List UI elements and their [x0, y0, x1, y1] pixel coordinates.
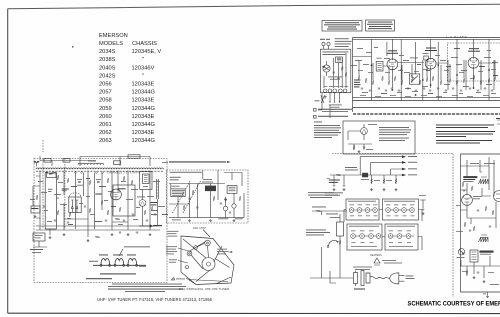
caption heater circuit viewed	[100, 273, 136, 274]
svg-text:2059: 2059	[99, 106, 112, 112]
svg-text:120344G: 120344G	[132, 138, 155, 144]
waveform sawtooth upper	[478, 177, 488, 184]
dial stop pointer	[203, 230, 210, 238]
dial plate inner skirt	[186, 277, 231, 285]
checkbox line 1	[314, 109, 353, 112]
AGC arrow	[139, 225, 152, 227]
svg-text:120343E: 120343E	[132, 98, 155, 104]
channel strip coil 1	[45, 173, 59, 230]
tuner notes text block	[108, 284, 186, 292]
label P1 S1	[354, 289, 365, 290]
sound section wires	[460, 157, 496, 228]
note box 2 (UHF tuner strip notes)	[366, 20, 395, 31]
L5 coil box	[171, 186, 185, 197]
stage coupling wires	[353, 57, 496, 67]
b+ distribution wires with arrows	[330, 155, 417, 176]
dial pulley large	[202, 258, 215, 271]
sound section resistors	[462, 182, 494, 231]
svg-text:2042S: 2042S	[99, 73, 116, 79]
sound section caps	[463, 190, 491, 231]
IF strip main box	[353, 38, 500, 113]
left lower boxes -140V	[30, 233, 47, 253]
svg-text:2038S: 2038S	[99, 57, 116, 63]
audio out tube V6 partial right edge	[494, 191, 500, 202]
page top border	[8, 4, 500, 9]
balun transformer	[336, 57, 343, 63]
tube V2 2nd IF 6CB6	[425, 48, 437, 70]
IF strip extra labels	[357, 47, 498, 94]
tuner interior wires	[36, 171, 160, 238]
tuner top feed wires	[40, 155, 150, 166]
svg-text:2058: 2058	[99, 98, 112, 104]
UHF tuner grounds	[188, 219, 235, 222]
svg-text:120343E: 120343E	[132, 130, 155, 136]
page left border	[7, 9, 9, 313]
heavy dashed separator	[353, 113, 500, 115]
svg-text:2060: 2060	[99, 114, 112, 120]
svg-text:L.2 PLATE: L.2 PLATE	[446, 35, 468, 39]
extra value labels	[355, 57, 498, 89]
UHF osc transformer	[227, 186, 237, 194]
leads below terminal strip	[324, 93, 342, 108]
svg-text:HEATERS: HEATERS	[370, 254, 382, 257]
dial pulley left2	[194, 246, 198, 250]
tube V1 RF amp 6BK7B (dashed envelope)	[62, 189, 82, 213]
UHF tuner bottom labels	[172, 218, 243, 220]
mixer coil assembly L6	[140, 172, 152, 190]
AC interlock connector	[354, 271, 371, 287]
svg-text:": "	[142, 57, 144, 63]
UHF tuner caps	[188, 198, 231, 213]
svg-text:120345E, V: 120345E, V	[132, 49, 162, 55]
svg-text:DIAL STOP: DIAL STOP	[193, 227, 206, 230]
section boundary dashed horizontal	[332, 153, 453, 155]
dial cord runs	[183, 239, 230, 282]
svg-text:2040S: 2040S	[99, 65, 116, 71]
sound lower wires	[460, 256, 500, 278]
svg-text:120343E: 120343E	[132, 114, 155, 120]
antenna Y symbol	[34, 161, 39, 166]
dial mechanism plate outline	[181, 236, 234, 285]
svg-text:120344G: 120344G	[132, 90, 155, 96]
label AC interlock	[353, 267, 372, 270]
coupler vertical wires	[324, 53, 346, 88]
heater interconnect wires	[344, 210, 422, 251]
svg-text:2034S: 2034S	[99, 49, 116, 55]
tube V osc 6J6	[111, 188, 126, 200]
on-off switch note rows	[325, 192, 343, 195]
line cord	[370, 276, 390, 278]
lead dress note dark cluster	[354, 80, 361, 88]
sound IF tube V5	[462, 195, 482, 206]
label C/W tuner arrow	[171, 278, 185, 280]
heater chain box 3	[347, 224, 382, 250]
UHF tuner wires	[169, 170, 244, 218]
heater circuit filament arches	[89, 255, 146, 267]
dashed AGC box top right	[447, 43, 500, 81]
pilot lamp symbol	[374, 258, 402, 265]
svg-text:2061: 2061	[99, 122, 112, 128]
dial idler small	[186, 266, 189, 269]
channel strip coil 2	[75, 173, 83, 230]
IF transformer L3 can	[376, 58, 383, 71]
section boundary dashed vertical	[452, 154, 454, 298]
sound takeoff label block	[463, 176, 477, 182]
right edge connector stubs	[496, 118, 500, 124]
plate load resistors row	[358, 75, 496, 85]
svg-text:SCHEMATIC COURTESY OF EMERSON: SCHEMATIC COURTESY OF EMERSON	[408, 301, 500, 308]
note conversion part nos	[86, 278, 112, 279]
fuse / circuit breaker left	[330, 214, 344, 248]
UHF box inner header text	[170, 171, 202, 174]
wires top rail to tubes	[372, 39, 495, 100]
NOTE paragraph	[314, 122, 341, 138]
coupler small parts	[328, 66, 347, 80]
IF strip bottom rails	[353, 97, 500, 99]
waveform sawtooth lower	[478, 235, 488, 242]
svg-text:DIAL STRINGING, UHF-VHF TUNER: DIAL STRINGING, UHF-VHF TUNER	[179, 288, 229, 291]
sound section bottom ground	[483, 292, 489, 298]
page bottom border	[8, 312, 500, 314]
UHF trim bal labels	[170, 177, 181, 180]
right column dark labels	[151, 202, 159, 215]
dial labels right column	[217, 249, 232, 255]
oscillator section box	[113, 185, 135, 216]
video detector diode cluster	[409, 74, 419, 84]
cathode drop wires	[359, 60, 495, 88]
svg-text:2057: 2057	[99, 90, 112, 96]
antenna coupler box	[321, 49, 351, 92]
svg-text:EMERSON: EMERSON	[99, 33, 128, 39]
channel strip coil 3	[95, 173, 104, 230]
checkbox line 2	[314, 116, 349, 119]
UHF mixer diode	[223, 197, 227, 218]
tuner value labels	[38, 178, 168, 225]
bypass capacitors row	[361, 88, 493, 91]
svg-text:2063: 2063	[99, 138, 112, 144]
label UHF TUNERS lines	[335, 38, 352, 47]
heater chain box 1	[346, 199, 379, 220]
osc adj instructions text	[379, 127, 411, 141]
AC plug	[390, 273, 405, 284]
terminal strip circles	[323, 86, 348, 93]
volume control labels	[306, 230, 330, 236]
UHF osc tube	[232, 193, 236, 217]
label pointer lines	[178, 248, 192, 263]
dial pulley left	[187, 251, 192, 256]
hi voltage caution label	[345, 167, 358, 170]
switch wafer bus (bumped line)	[36, 168, 164, 171]
svg-text:UHF- VHF TUNER PT. F47316, VHF: UHF- VHF TUNER PT. F47316, VHF TUNERS 47…	[97, 297, 212, 302]
tube V3 3rd IF 6AU6	[468, 48, 480, 68]
rotary switch wafer	[323, 61, 331, 76]
label to AGC	[153, 225, 162, 226]
stray dot	[72, 46, 73, 48]
VHF tuner dashed enclosure	[34, 159, 167, 283]
label 117V 60 cycle	[406, 276, 415, 279]
sound lower components	[462, 270, 494, 283]
heater chain box 2	[383, 199, 419, 220]
label 1/4 CUP spring retainer	[168, 231, 179, 237]
models table	[99, 33, 161, 144]
junction dots	[371, 64, 490, 96]
tuner ground symbols	[49, 233, 152, 242]
vertical feed wires below antenna board	[318, 93, 330, 118]
interlock feed row	[312, 207, 347, 216]
dial labels left column	[166, 246, 177, 262]
IF strip inner top rail	[353, 38, 500, 40]
sound section small labels	[456, 163, 499, 285]
coupler inner text rows	[322, 52, 348, 55]
svg-text:120344G: 120344G	[132, 106, 155, 112]
strip contact dots	[46, 172, 103, 174]
dial pulley top	[205, 240, 211, 246]
on-off switch arc	[322, 240, 338, 278]
svg-text:": "	[142, 73, 144, 79]
volume control box	[457, 249, 465, 258]
strap note with arrow	[162, 161, 231, 163]
tube V1 1st IF 6CB6	[387, 50, 398, 69]
UHF tuner resistors	[183, 190, 241, 210]
left stub components near dashed boundary	[419, 195, 426, 215]
sound section box	[460, 154, 500, 292]
300 ohm lead-in	[315, 95, 325, 103]
note box 1 (VHF tuner strip notes)	[322, 21, 362, 32]
general notes paragraph right	[436, 125, 495, 144]
pilot lamp note rows	[308, 192, 338, 198]
left margin components: input filter	[30, 176, 40, 218]
L7 UHF ant coil	[202, 179, 216, 191]
label UHF-VHF tuner only with pointer	[119, 246, 150, 256]
svg-text:2056: 2056	[99, 82, 112, 88]
oscillator adjustment box	[343, 121, 415, 154]
antenna terminals VHF	[320, 39, 330, 49]
ratio detector transformer	[470, 250, 478, 262]
tuner capacitors	[43, 206, 156, 233]
svg-text:120346V: 120346V	[132, 65, 155, 71]
section shield dashed verticals	[43, 140, 65, 229]
antenna coil right	[157, 179, 159, 199]
small value labels scattered in IF strip	[358, 69, 496, 97]
power wiring to interlock	[310, 248, 353, 283]
svg-text:MODELS: MODELS	[99, 41, 123, 47]
UHF tuner dashed enclosure	[167, 170, 249, 223]
osc adj lower components	[348, 144, 373, 153]
b+ feed components row	[327, 174, 398, 191]
gang coupling dashed diagonals	[173, 181, 201, 213]
svg-text:CHASSIS: CHASSIS	[132, 41, 157, 47]
wire from coupler to IF strip	[351, 64, 357, 66]
L30 peaking coil dark box	[361, 173, 369, 180]
tube V mixer	[137, 197, 146, 207]
IF transformer T4 can	[423, 53, 429, 60]
tuner small resistors	[57, 175, 153, 238]
heater chain box 4	[385, 224, 418, 250]
svg-text:2062: 2062	[99, 130, 112, 136]
svg-text:120343E: 120343E	[132, 82, 155, 88]
svg-text:120344G: 120344G	[132, 122, 155, 128]
osc adj tube symbol	[348, 124, 377, 140]
dark component label right	[480, 251, 494, 255]
